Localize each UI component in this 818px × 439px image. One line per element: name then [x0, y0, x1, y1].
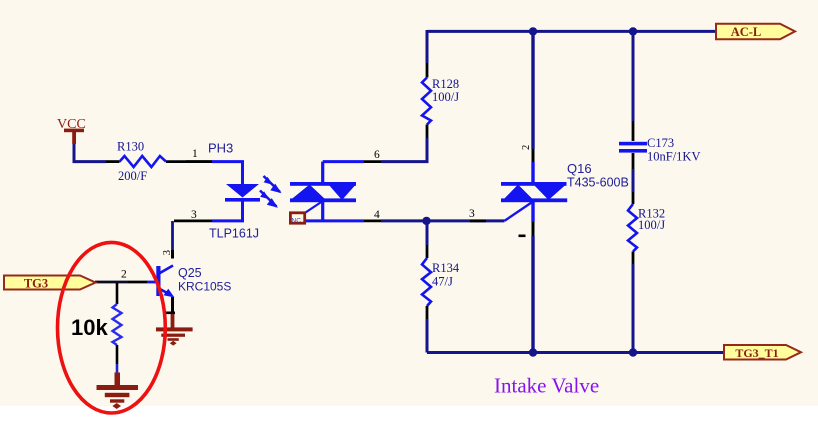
- net label PH3: [208, 141, 233, 156]
- svg-text:KRC105S: KRC105S: [178, 280, 231, 294]
- pin 2 stub (Q16 top): [532, 149, 535, 162]
- svg-text:Q25: Q25: [178, 266, 202, 280]
- pin number 3 rotated (Q25 collector): [162, 250, 173, 255]
- svg-text:Q16: Q16: [567, 161, 592, 176]
- wire R128 branch lower to pin6 row: [381, 138, 427, 162]
- svg-text:TLP161J: TLP161J: [209, 227, 259, 241]
- label R132 value 100/J: [638, 218, 665, 232]
- label R134: [432, 261, 460, 275]
- svg-text:PH3: PH3: [208, 141, 233, 156]
- svg-text:R128: R128: [432, 77, 459, 91]
- svg-text:47/J: 47/J: [432, 275, 453, 289]
- svg-text:3: 3: [191, 209, 197, 221]
- label C173 value 10nF/1KV: [647, 150, 700, 164]
- label R132: [638, 207, 665, 221]
- svg-text:3: 3: [162, 250, 173, 255]
- svg-text:TG3_T1: TG3_T1: [735, 346, 778, 360]
- junction dot top rail / Q16: [529, 27, 537, 35]
- ground (below 10k): [97, 373, 139, 410]
- wire R134 branch lower: [426, 319, 429, 353]
- resistor R128: [422, 63, 431, 138]
- svg-text:TG3: TG3: [24, 277, 48, 291]
- svg-text:100/J: 100/J: [432, 90, 459, 104]
- svg-text:2: 2: [521, 145, 532, 150]
- wire pin4 row (opto pin4 to Q16 gate): [381, 219, 504, 222]
- pin number 6: [374, 149, 380, 161]
- svg-text:200/F: 200/F: [118, 169, 147, 183]
- junction dot bottom rail / Q16: [529, 348, 537, 356]
- wire Q25 collector riser: [171, 221, 174, 250]
- wire C173 to R132: [632, 169, 635, 192]
- svg-text:4: 4: [374, 209, 380, 221]
- pin number 2 (Q25 base): [121, 269, 127, 281]
- label 10k: [71, 315, 108, 340]
- label TLP161J: [209, 227, 259, 241]
- wire Q16 vertical lower: [531, 236, 534, 353]
- label T435-600B: [567, 176, 629, 190]
- svg-text:1: 1: [192, 148, 198, 160]
- svg-text:6: 6: [374, 149, 380, 161]
- label R130 designator: [117, 140, 144, 154]
- svg-text:100/J: 100/J: [638, 218, 665, 232]
- wire R134 branch upper: [426, 221, 429, 245]
- optocoupler U1 photo-triac side: [290, 162, 364, 221]
- pin 4 stub (opto): [364, 219, 381, 222]
- label Q25: [178, 266, 202, 280]
- optocoupler U1 TLP161J LED side: [174, 162, 260, 221]
- junction dot bottom rail / R132: [629, 348, 637, 356]
- label C173: [647, 136, 674, 150]
- wire top AC-L rail: [427, 30, 716, 33]
- net flag TG3: [4, 276, 96, 291]
- transistor Q25: [128, 250, 175, 316]
- wire TG3 base row: [95, 281, 128, 284]
- pin number 1 rotated (Q16): [519, 235, 526, 238]
- svg-text:10k: 10k: [71, 315, 108, 340]
- wire R132 branch lower: [632, 264, 635, 353]
- pin number 2 rotated (Q16): [521, 145, 532, 150]
- wire R128 branch upper: [426, 30, 429, 63]
- label R134 value 47/J: [432, 275, 453, 289]
- resistor 10k (annotation): [113, 283, 122, 374]
- resistor R134: [422, 245, 431, 319]
- wire bottom TG3_T1 rail: [427, 351, 724, 354]
- junction dot pin4/R134 tee: [422, 217, 430, 225]
- pin number 4: [374, 209, 380, 221]
- pin 3 stub (Q16 gate): [470, 219, 486, 222]
- opto light arrows: [260, 176, 282, 208]
- power port VCC: [57, 117, 86, 144]
- svg-text:R130: R130: [117, 140, 144, 154]
- triac Q16: [501, 162, 567, 222]
- wire Q16 vertical upper: [531, 30, 534, 149]
- svg-text:AC-L: AC-L: [731, 25, 762, 39]
- pin number 1 (opto LED anode): [192, 148, 198, 160]
- svg-text:NC: NC: [292, 218, 302, 225]
- svg-text:10nF/1KV: 10nF/1KV: [647, 150, 700, 164]
- opto NC gate box: [290, 213, 304, 225]
- label Q16: [567, 161, 592, 176]
- net flag AC-L: [716, 24, 795, 40]
- pin number 1 rotated (Q25 emitter): [163, 312, 175, 315]
- pin number 3 (Q16 gate): [469, 208, 475, 220]
- capacitor C173: [619, 121, 647, 169]
- svg-text:R134: R134: [432, 261, 460, 275]
- resistor R130: [106, 156, 212, 167]
- svg-text:Intake Valve: Intake Valve: [494, 374, 599, 398]
- svg-text:C173: C173: [647, 136, 674, 150]
- label R130 value 200/F: [118, 169, 147, 183]
- net flag TG3_T1: [724, 345, 801, 360]
- caption Intake Valve: [494, 374, 599, 398]
- pin 6 stub (opto): [364, 160, 381, 163]
- label KRC105S: [178, 280, 231, 294]
- ground (Q25 emitter): [156, 314, 193, 346]
- svg-text:3: 3: [469, 208, 475, 220]
- pin 1 stub (Q16 bottom): [532, 222, 535, 236]
- wire C173 branch top: [632, 30, 635, 121]
- annotation red ellipse: [58, 242, 166, 413]
- label R128: [432, 77, 459, 91]
- label R128 value 100/J: [432, 90, 459, 104]
- pin number 3 (opto LED cathode): [191, 209, 197, 221]
- junction dot top rail / C173: [629, 27, 637, 35]
- resistor R132: [628, 192, 637, 264]
- wire VCC to R130: [74, 143, 106, 162]
- svg-text:2: 2: [121, 269, 127, 281]
- svg-text:T435-600B: T435-600B: [567, 176, 629, 190]
